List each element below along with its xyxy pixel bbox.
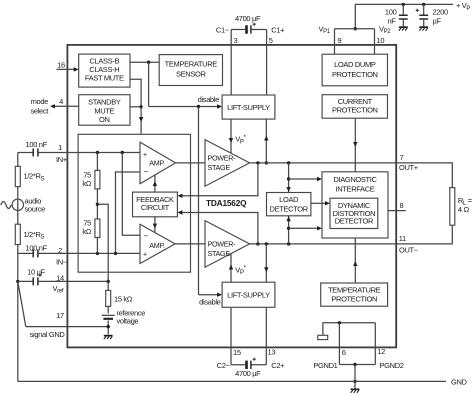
svg-text:INTERFACE: INTERFACE: [336, 185, 375, 194]
node signal gnd: [16, 280, 19, 283]
audio source sine mark: [1, 202, 11, 209]
node signal gnd join: [107, 325, 110, 328]
wire pin 5: [266, 30, 268, 96]
node diag+: [287, 177, 290, 180]
wire OUT- branch to diagnostic interface: [289, 226, 322, 230]
block FEEDBACK CIRCUIT: [133, 192, 178, 217]
svg-text:disable: disable: [198, 95, 219, 104]
svg-text:IN−: IN−: [56, 258, 68, 267]
svg-text:C1−: C1−: [216, 25, 230, 34]
svg-text:5: 5: [269, 36, 273, 45]
capacitor C2 4700uF: [245, 358, 256, 369]
svg-text:LIFT-SUPPLY: LIFT-SUPPLY: [227, 291, 270, 300]
wire 15k leads: [107, 281, 109, 334]
wire current protection to diagnostic interface: [353, 118, 357, 172]
svg-text:1: 1: [58, 143, 62, 152]
svg-text:TEMPERATURE: TEMPERATURE: [165, 60, 218, 69]
svg-text:PGND2: PGND2: [380, 361, 404, 370]
capacitor 100nF supply: [399, 3, 408, 27]
power-stage 1 (top): [205, 140, 250, 187]
svg-text:6: 6: [342, 348, 346, 357]
wire VP1-VP2 tie: [335, 28, 375, 30]
resistor RL load: [450, 188, 455, 226]
node PGND: [353, 363, 356, 366]
svg-text:100 nF: 100 nF: [26, 244, 48, 253]
wire feedback sense from OUT+: [177, 163, 258, 198]
wire pin 8 stub: [388, 210, 406, 212]
wire IN+ row: [18, 152, 140, 154]
wire lift-supply 2 from OUT-: [264, 244, 268, 282]
node VP feed: [354, 27, 357, 30]
svg-text:10: 10: [377, 36, 385, 45]
ground reference voltage: [104, 335, 113, 339]
plus mark 10uF: [38, 274, 41, 277]
svg-text:ON: ON: [99, 115, 110, 124]
wire GND rail: [18, 380, 446, 382]
wire AMP2 inverting input from IN+: [122, 153, 140, 236]
svg-text:OUT−: OUT−: [399, 246, 419, 255]
wire pin 16 input: [57, 67, 79, 71]
wire FAST MUTE lower output: [130, 79, 141, 107]
inner amplifier sub-block box: [78, 134, 190, 272]
wire pin 12: [374, 323, 376, 365]
resistor 15k: [106, 290, 111, 306]
block DYNAMIC DISTORTION DETECTOR: [330, 198, 378, 228]
capacitor 2200uF supply: [416, 3, 428, 27]
node OUT- c: [287, 242, 290, 245]
block LIFT-SUPPLY (bottom): [222, 282, 275, 307]
svg-text:OUT+: OUT+: [399, 163, 419, 172]
svg-text:VP2: VP2: [379, 24, 391, 35]
wire feedback sense from OUT-: [177, 210, 258, 244]
svg-text:+: +: [143, 251, 147, 258]
node junction disable: [197, 105, 200, 108]
svg-text:100 nF: 100 nF: [26, 140, 48, 149]
svg-text:µF: µF: [433, 17, 442, 26]
svg-text:signal GND: signal GND: [30, 330, 66, 339]
svg-text:10 µF: 10 µF: [27, 267, 45, 276]
node IN- r75: [96, 252, 99, 255]
block LIFT-SUPPLY (top): [222, 95, 275, 119]
svg-text:CURRENT: CURRENT: [338, 97, 373, 106]
svg-text:TEMPERATURE: TEMPERATURE: [328, 286, 381, 295]
svg-text:POWER-: POWER-: [208, 239, 237, 248]
svg-text:4 Ω: 4 Ω: [458, 205, 470, 214]
node junction mute: [139, 105, 142, 108]
svg-text:DETECTOR: DETECTOR: [335, 217, 374, 226]
wire disable riser: [148, 62, 150, 106]
svg-text:PROTECTION: PROTECTION: [332, 106, 378, 115]
IC outline TDA1562Q: [67, 45, 396, 348]
wire signal GND row pin 17: [26, 326, 108, 328]
block LOAD DETECTOR: [267, 193, 311, 216]
node junction on sensor wire: [147, 61, 150, 64]
wire +VP feed down to VP1/VP2: [355, 4, 453, 28]
svg-text:9: 9: [338, 36, 342, 45]
wire substrate tab riser: [323, 323, 375, 336]
svg-text:−: −: [144, 167, 149, 176]
svg-text:1/2*RS: 1/2*RS: [24, 230, 45, 241]
wire AMP2 output to power-stage 2: [175, 243, 205, 245]
svg-text:GND: GND: [451, 377, 468, 386]
svg-text:PGND1: PGND1: [313, 361, 337, 370]
block CLASS-B CLASS-H FAST MUTE: [79, 54, 130, 87]
wire feedback to AMP1: [153, 175, 157, 192]
block STANDBY MUTE ON: [79, 95, 130, 126]
wire disable to lift-supply top: [149, 104, 223, 108]
node OUT- b: [265, 242, 268, 245]
wire pin 15: [230, 307, 232, 365]
svg-text:LOAD DUMP: LOAD DUMP: [334, 60, 376, 69]
wire PGND ground stub: [354, 381, 356, 388]
wire lift-supply 1 bootstrap from OUT+: [264, 119, 268, 163]
node pin6 top: [338, 321, 341, 324]
op-amp AMP1 (top): [140, 142, 176, 184]
svg-text:CIRCUIT: CIRCUIT: [141, 203, 170, 212]
node diag-: [287, 227, 290, 230]
svg-text:14: 14: [56, 273, 64, 282]
svg-text:75: 75: [83, 170, 91, 179]
svg-text:75: 75: [83, 218, 91, 227]
svg-text:mode: mode: [31, 97, 49, 106]
svg-text:12: 12: [377, 347, 385, 356]
wire IN- row: [18, 252, 140, 254]
svg-text:Vref: Vref: [53, 284, 64, 295]
wire lift-supply 1 to power-stage 1 (VP*): [229, 119, 233, 153]
wire temperature protection to diagnostic interface: [353, 238, 357, 283]
wire OUT+ row internal: [250, 162, 397, 164]
ground 100nF supply: [399, 26, 408, 30]
svg-text:4: 4: [59, 97, 63, 106]
svg-text:C2−: C2−: [217, 361, 231, 370]
svg-text:AMP.: AMP.: [149, 241, 165, 250]
substrate tab: [318, 335, 328, 339]
capacitor 100nF IN-: [33, 249, 38, 257]
capacitor 10uF Vref: [33, 277, 38, 285]
capacitor C1 4700uF: [245, 23, 256, 34]
svg-text:16: 16: [57, 60, 65, 69]
svg-text:2200: 2200: [433, 8, 448, 17]
node IN+ amp2: [121, 151, 124, 154]
wire pin 3: [230, 30, 232, 96]
svg-text:8: 8: [400, 201, 404, 210]
svg-text:select: select: [31, 107, 50, 116]
wire feedback to AMP2: [153, 217, 157, 233]
node IN- amp1: [114, 252, 117, 255]
block DIAGNOSTIC INTERFACE U-diag: [322, 172, 388, 238]
resistor 75k upper: [95, 170, 100, 189]
ground PGND: [351, 389, 360, 393]
node OUT- a: [256, 242, 259, 245]
wire load detector to dynamic distortion detector: [311, 201, 330, 205]
svg-text:source: source: [25, 204, 46, 213]
svg-text:1/2*RS: 1/2*RS: [24, 172, 45, 183]
svg-text:TDA1562Q: TDA1562Q: [206, 198, 247, 208]
wire AMP1 output to power-stage 1: [176, 162, 206, 164]
node bootstrap on OUT+: [265, 161, 268, 164]
wire disable to lift-supply bottom: [199, 293, 223, 297]
resistor 1/2*Rs lower: [15, 224, 20, 244]
audio source: [12, 199, 23, 210]
svg-text:SENSOR: SENSOR: [176, 70, 207, 79]
svg-text:100: 100: [385, 8, 397, 17]
svg-text:15: 15: [233, 348, 241, 357]
svg-text:nF: nF: [387, 17, 396, 26]
svg-text:DIAGNOSTIC: DIAGNOSTIC: [333, 175, 377, 184]
block CURRENT PROTECTION: [322, 95, 387, 119]
svg-text:voltage: voltage: [117, 317, 139, 326]
svg-text:+ VP: + VP: [456, 1, 470, 12]
svg-text:DETECTOR: DETECTOR: [270, 205, 309, 214]
wire pin 6: [338, 323, 340, 365]
svg-text:IN+: IN+: [56, 155, 68, 164]
node bias tap: [96, 203, 99, 206]
wire PGND tie: [339, 364, 375, 366]
wire OUT- external to load: [396, 225, 452, 244]
wire Vref row: [18, 280, 108, 282]
wire OUT+ branch to diagnostic interface: [289, 177, 322, 181]
wire pin 13: [265, 307, 267, 365]
svg-text:kΩ: kΩ: [82, 227, 91, 236]
svg-text:PROTECTION: PROTECTION: [332, 70, 378, 79]
svg-text:C1+: C1+: [271, 25, 285, 34]
svg-text:+: +: [143, 152, 147, 159]
reference voltage cell: [102, 314, 115, 316]
svg-text:2: 2: [58, 246, 62, 255]
svg-text:STAGE: STAGE: [208, 163, 231, 172]
wire OUT- to load detector: [286, 216, 290, 244]
wire pin 10: [374, 29, 376, 55]
svg-text:C2+: C2+: [271, 361, 285, 370]
svg-text:17: 17: [56, 311, 64, 320]
wire 75k chain: [96, 153, 98, 254]
wire capacitor C2 row: [231, 364, 266, 366]
wire mute into amplifier block: [139, 107, 143, 135]
svg-text:FAST MUTE: FAST MUTE: [85, 74, 124, 83]
wire capacitor C1 row: [231, 29, 266, 31]
block LOAD DUMP PROTECTION: [322, 54, 387, 86]
wire CLASS-B to temperature sensor: [130, 61, 159, 63]
wire pin 4 mode select output: [50, 104, 79, 108]
svg-text:disable: disable: [199, 297, 220, 306]
block TEMPERATURE SENSOR: [159, 55, 222, 86]
capacitor 100nF IN+: [33, 149, 38, 157]
svg-text:VP*: VP*: [235, 265, 246, 276]
svg-text:AMP.: AMP.: [149, 159, 165, 168]
svg-text:11: 11: [399, 234, 406, 243]
svg-text:kΩ: kΩ: [82, 179, 91, 188]
node PGND rail: [353, 380, 356, 383]
node OUT+ a: [256, 161, 259, 164]
svg-text:POWER-: POWER-: [208, 153, 237, 162]
resistor 75k lower: [95, 219, 100, 238]
resistor 1/2*Rs upper: [15, 166, 20, 186]
wire left signal rail: [17, 153, 19, 382]
svg-text:3: 3: [234, 36, 238, 45]
svg-text:STANDBY: STANDBY: [88, 98, 121, 107]
node IN+ r75: [96, 151, 99, 154]
node Vref join: [107, 280, 110, 283]
wire disable drop to bottom: [198, 107, 200, 295]
svg-text:VP*: VP*: [235, 135, 246, 146]
wire OUT+ to load detector: [286, 163, 290, 193]
svg-text:VP1: VP1: [319, 24, 331, 35]
power-stage 2 (bottom): [205, 221, 250, 268]
wire STANDBY right output: [130, 106, 141, 108]
svg-text:15 kΩ: 15 kΩ: [114, 295, 133, 304]
svg-text:PROTECTION: PROTECTION: [331, 294, 377, 303]
svg-text:LOAD: LOAD: [279, 195, 299, 204]
ground 2200uF supply: [419, 26, 428, 30]
svg-text:4700 µF: 4700 µF: [235, 369, 261, 378]
wire OUT- row internal: [250, 243, 397, 245]
wire OUT+ external to load: [396, 163, 452, 188]
svg-text:STAGE: STAGE: [208, 249, 231, 258]
wire pin 9: [334, 29, 336, 55]
svg-text:13: 13: [268, 347, 276, 356]
wire power-stage 2 VP* from lift-supply 2: [229, 254, 233, 283]
svg-text:LIFT-SUPPLY: LIFT-SUPPLY: [227, 103, 270, 112]
svg-text:7: 7: [400, 153, 404, 162]
wire PGND to ground rail: [354, 365, 356, 382]
svg-text:4700 µF: 4700 µF: [235, 14, 261, 23]
svg-text:−: −: [144, 231, 149, 240]
wire signal gnd diagonal: [18, 281, 26, 326]
block TEMPERATURE PROTECTION: [321, 283, 388, 306]
op-amp AMP2 (bottom): [140, 224, 175, 263]
node OUT+ b: [287, 161, 290, 164]
wire AMP1 inverting input from IN-: [116, 172, 141, 253]
wire bias tap to Vref riser: [97, 204, 108, 281]
